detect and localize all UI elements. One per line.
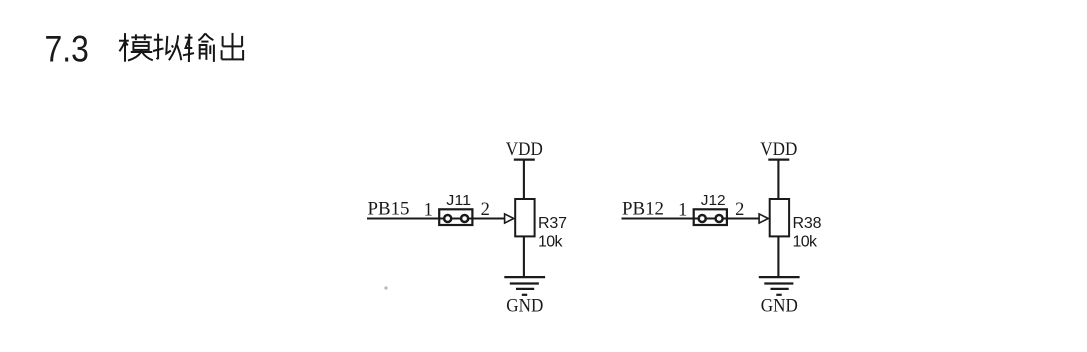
svg-text:1: 1	[678, 200, 687, 220]
jumper J11 pin2 circle	[461, 215, 468, 222]
svg-text:R37: R37	[538, 215, 567, 232]
wire PB12 to R38 wiper	[622, 217, 760, 219]
svg-text:GND: GND	[761, 297, 798, 317]
faint speck	[384, 286, 387, 289]
wire VDD to R37	[523, 160, 525, 199]
svg-text:R38: R38	[793, 215, 822, 232]
svg-text:1: 1	[424, 200, 433, 220]
svg-text:VDD: VDD	[506, 140, 543, 160]
svg-text:PB12: PB12	[622, 200, 664, 220]
power VDD bar	[768, 159, 789, 161]
wiper arrow	[759, 214, 768, 223]
heading hanzi 模	[119, 33, 153, 62]
power VDD bar	[514, 159, 535, 161]
heading hanzi 输	[183, 33, 214, 62]
svg-text:J12: J12	[701, 192, 726, 209]
wire VDD to R38	[777, 160, 779, 199]
wire R38 to GND	[777, 236, 779, 277]
jumper J12 body	[694, 209, 727, 225]
jumper J11 pin1 circle	[444, 215, 451, 222]
ground symbol	[504, 277, 545, 295]
svg-text:10k: 10k	[538, 234, 564, 251]
svg-text:7.3: 7.3	[45, 28, 89, 69]
svg-text:GND: GND	[506, 297, 543, 317]
heading hanzi 拟	[153, 34, 181, 61]
svg-text:J11: J11	[446, 192, 471, 209]
svg-text:2: 2	[735, 200, 744, 220]
svg-text:PB15: PB15	[368, 200, 410, 220]
heading hanzi 出	[222, 33, 244, 61]
ground symbol	[759, 277, 800, 295]
jumper J11 body	[439, 209, 472, 225]
jumper J12 pin2 circle	[716, 215, 723, 222]
jumper J12 pin1 circle	[699, 215, 706, 222]
svg-text:10k: 10k	[793, 234, 819, 251]
wire R37 to GND	[523, 236, 525, 277]
svg-text:2: 2	[481, 200, 490, 220]
wire PB15 to R37 wiper	[367, 217, 505, 219]
svg-text:VDD: VDD	[760, 140, 797, 160]
resistor R38 body	[770, 199, 789, 236]
wiper arrow	[505, 214, 514, 223]
resistor R37 body	[515, 199, 534, 236]
